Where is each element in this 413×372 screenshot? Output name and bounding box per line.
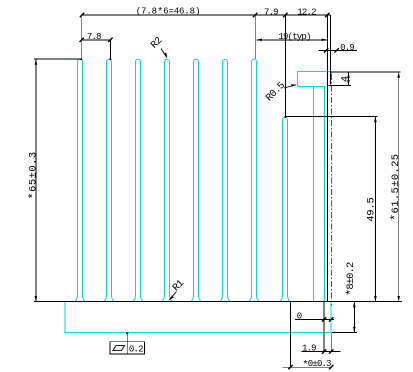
dim line 4 — [348, 72, 350, 85]
channel wall right — [324, 87, 326, 302]
fin 3 — [133, 59, 144, 301]
tick marks dim A — [80, 13, 339, 370]
arrowheads 19(typ) — [256, 39, 262, 42]
svg-text:12.2: 12.2 — [297, 7, 316, 17]
base top datum line — [34, 301, 402, 303]
leader R2 — [161, 49, 167, 58]
dim line 61.5 — [398, 72, 400, 302]
extension line 0-dim right — [323, 302, 325, 352]
fin 1 — [75, 59, 86, 301]
extension line lip right — [329, 15, 331, 85]
arrowheads 49.5 — [374, 117, 377, 123]
svg-text:*65±0.3: *65±0.3 — [27, 151, 41, 199]
extension line lip left — [326, 15, 328, 302]
fin 7 — [249, 59, 260, 301]
fin 4 — [162, 59, 173, 301]
dim line 1.9 — [301, 351, 340, 353]
svg-text:*0±0.3: *0±0.3 — [302, 359, 331, 371]
extension line 61.5 top — [331, 71, 401, 73]
arrowheads *65±0.3 — [35, 59, 38, 65]
tick marks 1.9 — [322, 349, 326, 353]
tick marks *0±0.3 — [288, 365, 292, 369]
svg-text:*61.5±0.25: *61.5±0.25 — [389, 154, 403, 221]
extension line 8 bottom — [332, 332, 357, 334]
extension line slot floor — [285, 115, 377, 117]
svg-text:19(typ): 19(typ) — [278, 32, 310, 42]
base plate — [65, 302, 331, 333]
svg-text:1.9: 1.9 — [302, 343, 316, 353]
arrowheads *8±0.2 — [353, 302, 356, 308]
dim line (7.8*6=46.8) — [81, 15, 330, 59]
dim line 0.9 — [318, 49, 356, 51]
dim line 49.5 — [374, 117, 376, 302]
extension line 65 top — [34, 58, 82, 60]
svg-text:*8±0.2: *8±0.2 — [344, 262, 358, 296]
svg-text:4: 4 — [340, 76, 352, 82]
centerline — [331, 74, 333, 306]
channel top plate — [298, 72, 328, 87]
dim line *65 — [35, 59, 37, 301]
leader R1 — [169, 292, 176, 300]
svg-text:0: 0 — [297, 311, 302, 321]
extension line 1.9 right — [330, 332, 332, 351]
fin 6 — [220, 59, 231, 301]
extension line 0-dim left — [290, 302, 292, 368]
tick marks 0.9 — [324, 48, 328, 52]
svg-text:7.9: 7.9 — [264, 7, 278, 17]
svg-text:R2: R2 — [149, 35, 165, 51]
dim line 0 — [295, 318, 334, 320]
svg-text:0.9: 0.9 — [340, 43, 354, 53]
tick marks 7.8 — [80, 38, 84, 42]
channel wall left — [313, 87, 315, 302]
svg-text:(7.8*6=46.8): (7.8*6=46.8) — [136, 7, 201, 19]
dim line 8 — [353, 302, 355, 333]
extension line 4 bottom — [328, 84, 350, 86]
svg-text:R0.5: R0.5 — [264, 80, 288, 104]
tick marks 0 — [322, 317, 326, 321]
arrowheads 4 — [347, 72, 350, 78]
dim line 7.8 — [81, 39, 111, 41]
outer right edge — [327, 71, 331, 77]
flatness frame — [110, 342, 144, 354]
flatness symbol — [113, 346, 125, 351]
dim line 19(typ) — [256, 39, 327, 41]
fin 2 — [104, 59, 115, 301]
fin 8 (short) — [280, 117, 291, 301]
node fin1 top — [80, 58, 82, 60]
arrowheads *61.5±0.25 — [397, 72, 400, 78]
node fin2 top — [109, 58, 111, 60]
dim line *0±0.3 — [283, 366, 332, 368]
svg-text:49.5: 49.5 — [365, 197, 377, 221]
svg-text:0.2: 0.2 — [129, 345, 143, 355]
svg-text:R1: R1 — [171, 278, 187, 294]
svg-text:7.8: 7.8 — [87, 32, 101, 42]
fin 5 — [191, 59, 202, 301]
arrowheads — [35, 39, 400, 333]
leader R0.5 — [284, 85, 296, 88]
extension line fin8 — [284, 15, 286, 118]
node slot floor left — [284, 116, 286, 118]
flatness leader — [126, 333, 128, 342]
